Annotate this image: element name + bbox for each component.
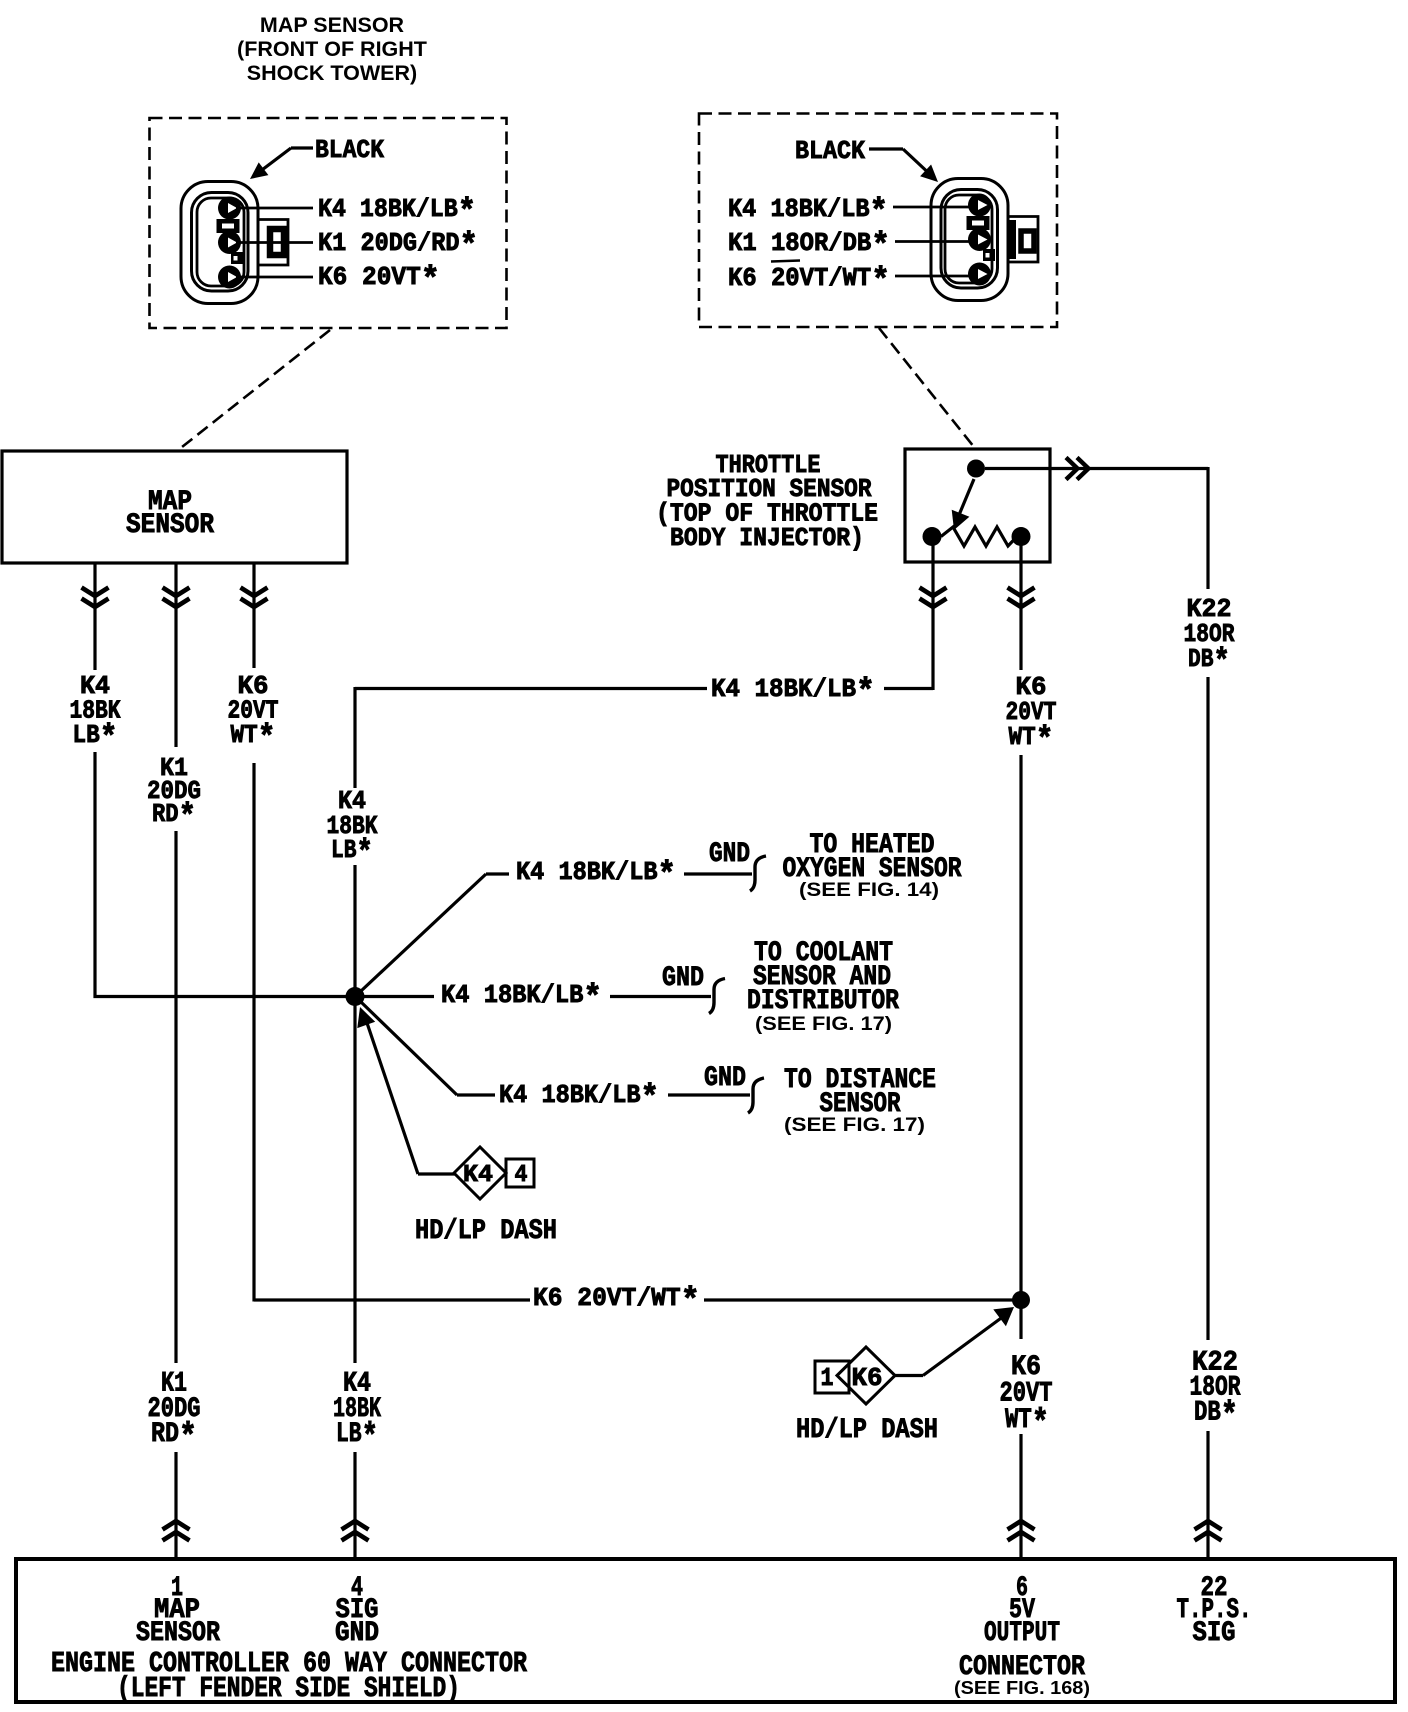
wire to GND distance [668, 1093, 750, 1096]
svg-text:K4: K4 [463, 1162, 493, 1189]
TPS resistor right terminal dot [1012, 527, 1031, 546]
engine controller 60 way connector box [16, 1559, 1395, 1702]
svg-text:K6: K6 [852, 1363, 883, 1393]
wire K22 vertical upper segment [1206, 467, 1209, 589]
wire K4 from MAP sensor pin [93, 563, 96, 670]
pin line K6 (right) [895, 275, 973, 278]
wire K4 TPS horizontal left part [355, 687, 707, 690]
wire K6 bus corner to label [254, 1298, 530, 1301]
svg-text:GND: GND [704, 1063, 746, 1094]
wire branch to coolant sensor [364, 995, 434, 998]
right connector detail dashed box [699, 114, 1057, 328]
wire K4 from junction to pin 4 upper [353, 1005, 356, 1363]
svg-text:HD/LP DASH: HD/LP DASH [415, 1216, 557, 1247]
connector break chevrons on K4 [82, 588, 109, 597]
wire K6 from TPS right terminal [1019, 542, 1022, 670]
wire to GND oxygen [684, 872, 752, 875]
off-page brace (coolant) [709, 979, 725, 1014]
connector break chevrons K6 at pin 6 [1008, 1521, 1035, 1530]
pin line K1 (right) [895, 240, 973, 243]
wire K4 vertical to junction upper [353, 687, 356, 788]
wire K6 bus label to junction [704, 1298, 1018, 1301]
left MAP sensor connector face [181, 182, 258, 304]
wire K1 from MAP sensor pin [174, 563, 177, 747]
splice symbol square 1 [815, 1361, 849, 1393]
right TPS connector face [931, 179, 1008, 301]
wire K1 lower segment [174, 1452, 177, 1559]
pin line K6 (left) [236, 276, 313, 279]
wire K6 vertical lower segment [1019, 1434, 1022, 1559]
connector break chevrons K4 at pin 4 [342, 1521, 369, 1530]
junction node K4 splice [346, 987, 365, 1006]
junction node K6 [1012, 1291, 1030, 1309]
connector break chevrons on K22 [1066, 458, 1078, 480]
leader line BLACK (left) [291, 146, 313, 149]
leader line BLACK (right) [869, 147, 903, 150]
svg-text:SENSOR: SENSOR [126, 510, 214, 541]
wire to GND coolant [610, 995, 711, 998]
connector break chevrons K22 at pin 22 [1195, 1521, 1222, 1530]
connector break chevrons TPS K6 [1008, 588, 1035, 597]
pin line K1 (left) [236, 241, 313, 244]
TPS resistor element [941, 527, 1017, 546]
svg-text:HD/LP DASH: HD/LP DASH [796, 1415, 938, 1446]
svg-text:SENSOR: SENSOR [136, 1618, 220, 1649]
connector break chevrons on K6 [241, 588, 268, 597]
svg-text:(SEE FIG. 14): (SEE FIG. 14) [799, 879, 939, 901]
dashed leader to MAP sensor box [182, 330, 330, 447]
TPS wiper arrow [959, 479, 974, 515]
wire K4 from TPS left terminal [931, 542, 934, 690]
svg-text:(SEE FIG. 17): (SEE FIG. 17) [755, 1013, 892, 1035]
svg-text:(FRONT OF RIGHT: (FRONT OF RIGHT [237, 37, 427, 61]
connector break chevrons K1 at pin 1 [163, 1521, 190, 1530]
svg-text:GND: GND [335, 1618, 379, 1649]
wire K22 vertical middle segment [1206, 677, 1209, 1340]
svg-text:(SEE FIG. 17): (SEE FIG. 17) [784, 1114, 925, 1136]
splice symbol square 4 [506, 1159, 534, 1187]
wire K4 lower segment [353, 1452, 356, 1559]
dashed leader to throttle position sensor box [879, 328, 974, 447]
svg-text:GND: GND [662, 963, 704, 994]
wire branch to heated oxygen sensor [361, 874, 486, 991]
pin line K4 (left) [236, 207, 313, 210]
wire K6 down to bus corner [252, 763, 255, 1302]
TPS wiper terminal dot [967, 460, 985, 478]
splice symbol diamond K4 [454, 1147, 506, 1199]
MAP sensor component box [2, 451, 347, 563]
wire K4 TPS horizontal right part [884, 687, 933, 690]
splice symbol diamond K6 [837, 1347, 895, 1404]
wire K4 vertical to junction lower [353, 865, 356, 990]
svg-text:BLACK: BLACK [795, 136, 865, 166]
left connector detail dashed box [150, 118, 507, 328]
connector break chevrons TPS K4 [920, 588, 947, 597]
connector break chevrons on K1 [163, 588, 190, 597]
wire K6 vertical middle segment [1019, 755, 1022, 1339]
wire K22 vertical lower segment [1206, 1431, 1209, 1559]
svg-text:BODY INJECTOR): BODY INJECTOR) [670, 523, 864, 553]
svg-text:GND: GND [709, 839, 750, 870]
wire from K4 splice to dash symbol [365, 1017, 418, 1174]
svg-text:4: 4 [515, 1162, 528, 1189]
arrow from K6 splice to junction [895, 1374, 923, 1377]
svg-text:OUTPUT: OUTPUT [984, 1618, 1060, 1649]
svg-text:1: 1 [821, 1363, 834, 1393]
throttle position sensor box [905, 449, 1050, 562]
svg-text:SIG: SIG [1193, 1618, 1236, 1649]
wire branch to distance sensor [361, 1002, 457, 1095]
svg-text:MAP SENSOR: MAP SENSOR [260, 13, 405, 37]
wire K22 from TPS wiper to corner [985, 467, 1208, 470]
off-page brace (distance) [748, 1078, 764, 1113]
svg-text:(LEFT FENDER SIDE SHIELD): (LEFT FENDER SIDE SHIELD) [117, 1672, 460, 1705]
svg-text:SHOCK TOWER): SHOCK TOWER) [247, 61, 417, 85]
wire K1 middle segment [174, 831, 177, 1363]
pin line K4 (right) [893, 206, 973, 209]
svg-text:(SEE FIG. 168): (SEE FIG. 168) [954, 1677, 1090, 1698]
svg-text:BLACK: BLACK [315, 135, 384, 165]
off-page brace (oxygen) [750, 856, 766, 891]
wire K4 down and over to junction [95, 752, 348, 997]
TPS resistor left terminal dot [923, 527, 942, 546]
wire K6 from MAP sensor pin [252, 563, 255, 668]
